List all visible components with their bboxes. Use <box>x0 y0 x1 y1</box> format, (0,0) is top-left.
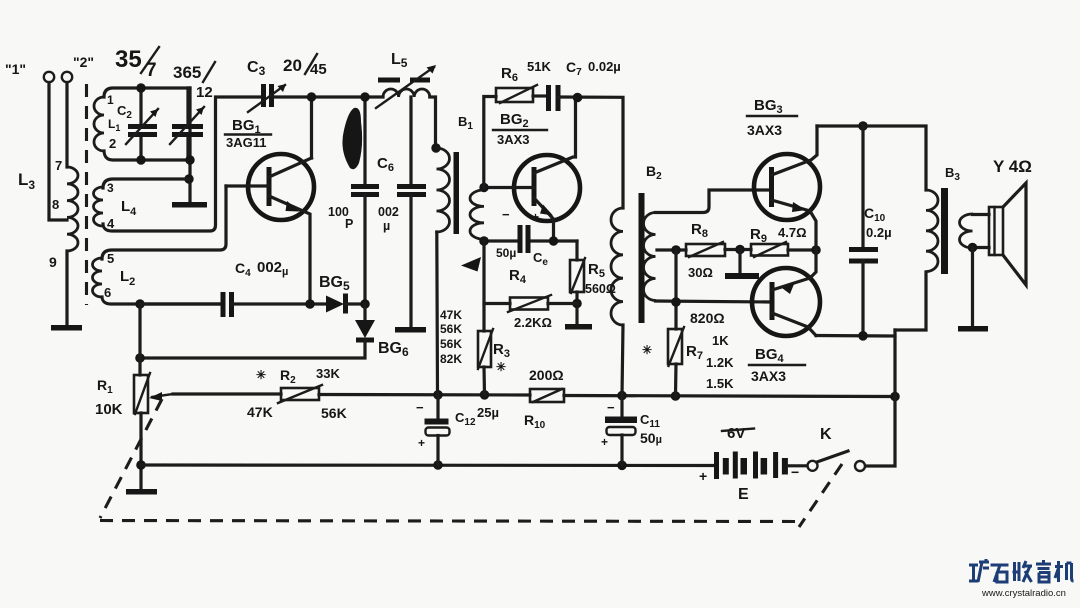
svg-text:P: P <box>345 217 353 231</box>
svg-text:✳: ✳ <box>642 343 652 357</box>
svg-text:Ce: Ce <box>533 250 548 268</box>
svg-text:C3: C3 <box>247 59 266 78</box>
svg-text:R6: R6 <box>501 65 518 84</box>
svg-text:2.2KΩ: 2.2KΩ <box>514 315 552 330</box>
svg-text:L4: L4 <box>121 198 137 218</box>
svg-text:3AX3: 3AX3 <box>751 368 786 384</box>
svg-text:C4: C4 <box>235 260 251 279</box>
svg-text:R4: R4 <box>509 267 527 286</box>
svg-text:BG6: BG6 <box>378 340 409 359</box>
svg-text:2: 2 <box>109 136 116 151</box>
svg-text:1K: 1K <box>712 333 729 348</box>
svg-text:BG2: BG2 <box>500 111 529 130</box>
svg-text:L3: L3 <box>18 170 35 192</box>
svg-text:BG4: BG4 <box>755 346 785 365</box>
svg-text:Y 4Ω: Y 4Ω <box>993 157 1032 176</box>
svg-text:L2: L2 <box>120 268 135 288</box>
svg-text:L1: L1 <box>108 117 120 133</box>
svg-text:47K: 47K <box>440 308 462 322</box>
svg-text:7: 7 <box>146 60 157 81</box>
svg-text:35: 35 <box>115 46 142 73</box>
svg-text:+: + <box>418 436 425 450</box>
svg-text:1.2K: 1.2K <box>706 355 734 370</box>
svg-text:−: − <box>416 400 424 415</box>
svg-text:3AG11: 3AG11 <box>226 135 266 150</box>
svg-text:4: 4 <box>107 216 115 231</box>
svg-text:R7: R7 <box>686 343 703 362</box>
svg-text:R3: R3 <box>493 341 510 360</box>
svg-text:4.7Ω: 4.7Ω <box>778 225 807 240</box>
svg-text:30Ω: 30Ω <box>688 265 713 280</box>
svg-text:C2: C2 <box>117 103 132 121</box>
svg-text:33K: 33K <box>316 366 340 381</box>
svg-text:B1: B1 <box>458 114 473 132</box>
svg-text:50µ: 50µ <box>496 246 516 260</box>
svg-text:R2: R2 <box>280 367 296 386</box>
svg-text:10K: 10K <box>95 401 123 418</box>
svg-text:+: + <box>699 468 707 484</box>
svg-text:BG5: BG5 <box>319 274 350 293</box>
svg-text:µ: µ <box>383 219 390 233</box>
svg-text:7: 7 <box>55 158 62 173</box>
svg-text:6: 6 <box>104 285 111 300</box>
svg-text:L5: L5 <box>391 51 408 70</box>
svg-text:B2: B2 <box>646 163 662 182</box>
svg-text:C6: C6 <box>377 155 394 174</box>
svg-text:3: 3 <box>107 181 114 195</box>
svg-text:560Ω: 560Ω <box>585 282 616 296</box>
svg-text:56K: 56K <box>440 322 462 336</box>
svg-text:R5: R5 <box>588 261 605 280</box>
svg-text:R10: R10 <box>524 412 546 431</box>
svg-text:0.02µ: 0.02µ <box>588 59 621 74</box>
svg-text:56K: 56K <box>321 405 347 421</box>
svg-text:3AX3: 3AX3 <box>747 122 782 138</box>
svg-text:✳: ✳ <box>256 368 266 382</box>
svg-text:E: E <box>738 486 749 503</box>
svg-text:BG3: BG3 <box>754 97 783 116</box>
svg-text:002: 002 <box>378 205 399 219</box>
svg-text:1.5K: 1.5K <box>706 376 734 391</box>
svg-text:+: + <box>532 210 539 224</box>
svg-text:200Ω: 200Ω <box>529 367 564 383</box>
svg-text:−: − <box>607 400 615 415</box>
svg-text:C11: C11 <box>640 412 660 430</box>
svg-text:R9: R9 <box>750 226 767 245</box>
svg-text:6V: 6V <box>727 425 745 442</box>
svg-text:C12: C12 <box>455 410 476 428</box>
svg-text:−: − <box>502 207 510 222</box>
svg-text:3AX3: 3AX3 <box>497 132 530 147</box>
svg-text:B3: B3 <box>945 165 960 183</box>
svg-text:8: 8 <box>52 197 59 212</box>
svg-text:✳: ✳ <box>496 360 506 374</box>
svg-text:"1": "1" <box>5 61 26 77</box>
svg-text:56K: 56K <box>440 337 462 351</box>
svg-text:www.crystalradio.cn: www.crystalradio.cn <box>981 588 1066 599</box>
svg-text:25µ: 25µ <box>477 405 499 420</box>
svg-text:−: − <box>791 464 799 480</box>
svg-text:5: 5 <box>107 251 114 266</box>
svg-text:9: 9 <box>49 254 57 270</box>
svg-text:K: K <box>820 426 832 443</box>
svg-text:365: 365 <box>173 63 201 82</box>
svg-text:002µ: 002µ <box>257 259 288 278</box>
svg-text:12: 12 <box>196 84 213 101</box>
svg-text:R8: R8 <box>691 221 708 240</box>
svg-text:BG1: BG1 <box>232 117 261 136</box>
svg-text:1: 1 <box>107 93 114 107</box>
svg-text:50µ: 50µ <box>640 430 662 446</box>
svg-text:51K: 51K <box>527 59 551 74</box>
svg-text:R1: R1 <box>97 377 113 396</box>
svg-text:C10: C10 <box>864 205 886 224</box>
svg-text:"2": "2" <box>73 54 94 70</box>
svg-text:+: + <box>601 435 608 449</box>
svg-text:0.2µ: 0.2µ <box>866 225 892 240</box>
svg-text:820Ω: 820Ω <box>690 310 725 326</box>
svg-text:47K: 47K <box>247 404 273 420</box>
svg-text:C7: C7 <box>566 59 582 78</box>
svg-text:82K: 82K <box>440 352 462 366</box>
svg-text:20: 20 <box>283 56 302 75</box>
svg-text:45: 45 <box>310 61 327 78</box>
